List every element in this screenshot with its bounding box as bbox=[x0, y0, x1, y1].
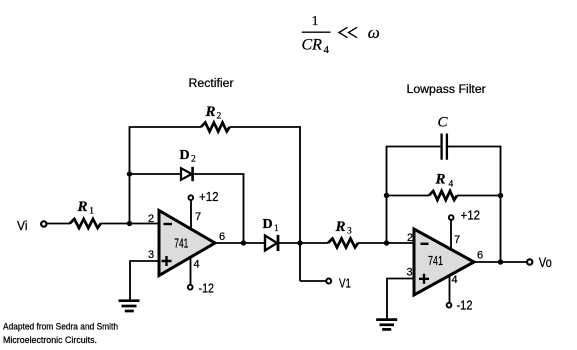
svg-text:2: 2 bbox=[191, 155, 196, 165]
wire R2 row left bbox=[129, 126, 201, 128]
node V1 terminal bbox=[326, 279, 331, 284]
svg-text:-12: -12 bbox=[457, 299, 473, 313]
svg-text:Rectifier: Rectifier bbox=[189, 76, 234, 90]
wire U2 pin 3 to ground bbox=[386, 278, 388, 319]
terminal -12 U2 bbox=[447, 303, 452, 308]
capacitor C bbox=[442, 134, 447, 160]
resistor R1 bbox=[70, 219, 101, 228]
op-amp U2 plus sign bbox=[419, 274, 429, 284]
svg-text:ω: ω bbox=[368, 23, 380, 42]
diode D2 cathode bar bbox=[191, 167, 194, 181]
svg-text:Microelectronic Circuits.: Microelectronic Circuits. bbox=[3, 335, 97, 346]
wire R2 right vertical down to V1 corner bbox=[299, 126, 301, 281]
wire U1 pin 7 bbox=[190, 201, 192, 229]
resistor R2 bbox=[201, 123, 230, 132]
diode D1 cathode bar bbox=[277, 235, 280, 251]
svg-text:741: 741 bbox=[174, 237, 188, 251]
junction R4 right bbox=[498, 193, 503, 198]
op-amp U1 body bbox=[159, 211, 215, 276]
junction D2 branch bbox=[127, 171, 132, 176]
svg-text:CR: CR bbox=[302, 37, 323, 54]
wire D2 row right bbox=[193, 173, 245, 175]
wire U2 pin 3 bbox=[387, 278, 415, 280]
junction input node at pin 2 bbox=[127, 221, 132, 226]
wire D1 to R3 bbox=[278, 242, 328, 244]
op-amp U2 body bbox=[414, 229, 474, 295]
junction output feedback bbox=[498, 259, 503, 264]
svg-text:Vi: Vi bbox=[17, 219, 28, 233]
svg-text:7: 7 bbox=[454, 234, 460, 246]
svg-text:6: 6 bbox=[477, 250, 483, 262]
ground G2 bbox=[376, 318, 397, 321]
svg-text:741: 741 bbox=[428, 254, 443, 268]
wire U2 feedback left vertical bbox=[386, 147, 388, 244]
junction U2 input node bbox=[384, 240, 389, 245]
svg-text:4: 4 bbox=[449, 180, 454, 190]
svg-text:Lowpass Filter: Lowpass Filter bbox=[407, 82, 486, 96]
node Vo terminal bbox=[527, 259, 532, 264]
diode D2 bbox=[181, 168, 192, 180]
svg-text:D: D bbox=[180, 148, 190, 163]
svg-text:2: 2 bbox=[217, 112, 222, 122]
svg-text:R: R bbox=[205, 104, 216, 120]
wire R3 to op-amp U2 pin 2 bbox=[358, 242, 415, 244]
junction R4 left bbox=[384, 193, 389, 198]
wire U2 pin 4 bbox=[449, 276, 451, 303]
wire U1 pin 3 to ground bbox=[129, 260, 131, 300]
svg-text:6: 6 bbox=[219, 231, 225, 243]
wire U1 output to D1 bbox=[215, 242, 265, 244]
wire R2 row right bbox=[230, 126, 301, 128]
svg-text:4: 4 bbox=[324, 44, 330, 56]
svg-text:+12: +12 bbox=[199, 190, 219, 204]
svg-text:R: R bbox=[77, 199, 88, 215]
op-amp U2 minus sign bbox=[421, 243, 429, 245]
svg-text:3: 3 bbox=[407, 267, 413, 279]
svg-text:Vo: Vo bbox=[539, 255, 552, 270]
formula fraction bar bbox=[302, 31, 331, 33]
svg-text:3: 3 bbox=[148, 249, 154, 261]
op-amp U1 minus sign bbox=[164, 223, 173, 225]
junction R2 feedback and V1 tap bbox=[297, 240, 302, 245]
terminal -12 U1 bbox=[188, 285, 193, 290]
wire R1 to op-amp U1 pin 2 bbox=[101, 223, 159, 225]
wire Vi to R1 bbox=[47, 223, 70, 225]
svg-text:4: 4 bbox=[194, 259, 200, 271]
wire C row left bbox=[386, 146, 441, 148]
svg-text:Adapted from Sedra and Smith: Adapted from Sedra and Smith bbox=[3, 322, 118, 333]
wire R4 row right bbox=[457, 195, 501, 197]
svg-text:4: 4 bbox=[452, 274, 458, 286]
wire U1 pin 3 bbox=[130, 260, 159, 262]
diode D1 bbox=[265, 236, 277, 251]
svg-text:7: 7 bbox=[195, 211, 201, 223]
svg-text:1: 1 bbox=[89, 207, 94, 217]
svg-text:2: 2 bbox=[407, 232, 413, 244]
terminal +12 U2 bbox=[449, 215, 454, 220]
svg-text:3: 3 bbox=[347, 227, 352, 237]
wire feedback left vertical bbox=[129, 127, 131, 224]
op-amp U1 plus sign bbox=[162, 256, 172, 266]
svg-text:R: R bbox=[335, 219, 346, 235]
wire C row right bbox=[448, 146, 501, 148]
svg-text:-12: -12 bbox=[199, 282, 215, 296]
wire V1 stub bbox=[300, 280, 326, 282]
wire U2 output bbox=[474, 261, 527, 263]
svg-text:1: 1 bbox=[274, 224, 279, 234]
node Vi terminal bbox=[41, 221, 46, 226]
svg-text:R: R bbox=[435, 172, 446, 188]
svg-text:1: 1 bbox=[312, 14, 319, 29]
wire D2 row left bbox=[130, 173, 182, 175]
wire U2 pin 7 bbox=[450, 221, 452, 250]
resistor R3 bbox=[328, 239, 358, 248]
formula much-less-than sign bbox=[339, 27, 357, 37]
junction D2 feedback at output bbox=[241, 240, 246, 245]
svg-text:D: D bbox=[263, 217, 273, 232]
svg-text:V1: V1 bbox=[339, 276, 351, 291]
svg-text:C: C bbox=[438, 114, 449, 130]
svg-text:+12: +12 bbox=[461, 209, 481, 223]
resistor R4 bbox=[429, 191, 457, 200]
wire U1 pin 4 bbox=[190, 257, 192, 285]
terminal +12 U1 bbox=[188, 195, 193, 200]
svg-text:2: 2 bbox=[148, 213, 154, 225]
wire D2 right vertical bbox=[243, 174, 245, 243]
wire R4 row left bbox=[387, 195, 430, 197]
wire feedback right vertical bbox=[500, 146, 502, 262]
ground G1 bbox=[119, 299, 140, 302]
